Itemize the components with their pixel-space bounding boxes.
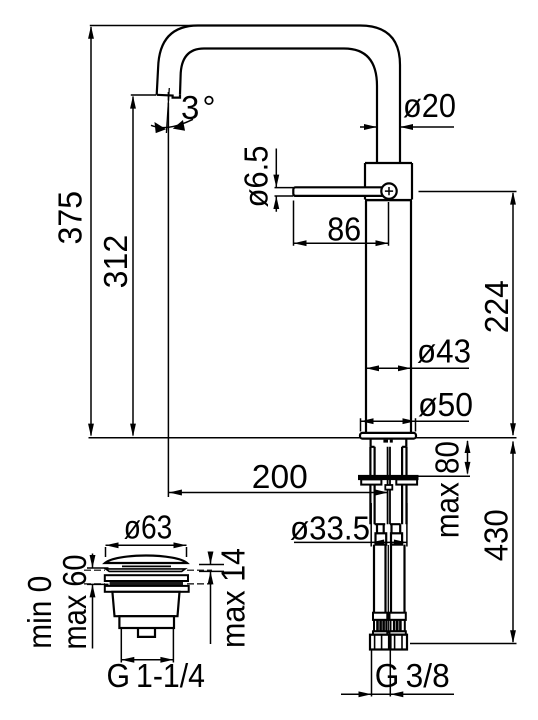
arrow 430 top: [510, 441, 516, 454]
dim 375 line: [90, 27, 92, 436]
dim o33.5 line: [294, 541, 407, 543]
svg-text:200: 200: [252, 458, 308, 495]
arrow 312 top: [130, 96, 136, 109]
dim max14 arrow lines: [210, 552, 212, 645]
body separator thick line: [365, 199, 412, 201]
svg-text:G 1-1/4: G 1-1/4: [106, 657, 205, 694]
spout nozzle bottom and aerator step: [157, 94, 180, 97]
dim o63 line: [106, 544, 187, 546]
dim 312 line: [132, 97, 134, 436]
arrow 430 bottom: [510, 630, 516, 643]
arrow max80 bottom: [465, 462, 471, 475]
arrow o33.5 left: [371, 539, 384, 545]
dim o50 ext lines: [361, 418, 416, 431]
drain bottom tab: [138, 628, 155, 637]
arrow max80 top: [465, 440, 471, 453]
arrow o43 right: [398, 365, 411, 371]
arrow 200 right: [375, 490, 388, 496]
arrow G3/8 left: [359, 691, 372, 697]
dim 86 ext lines: [294, 201, 389, 246]
dim max80 line: [467, 441, 469, 474]
dim max14 ticks: [199, 565, 224, 572]
body block U1 top: [365, 163, 412, 200]
arrow max14 top: [208, 552, 214, 565]
arrow G3/8 right: [390, 691, 403, 697]
arrow o63 left: [106, 542, 119, 548]
rod end block: [385, 485, 392, 490]
spout top extension line: [90, 25, 196, 27]
under-counter shank: [371, 439, 407, 447]
arrow o6.5 bottom: [273, 196, 279, 209]
arrow max14 bottom: [208, 571, 214, 584]
handle pivot circle: [381, 183, 396, 198]
spout tilted axis 3deg: [166, 88, 169, 133]
arrow 224 top: [510, 192, 516, 205]
dim G3/8 ext lines: [372, 651, 391, 697]
arrow 312 bottom: [130, 424, 136, 437]
dome under line: [122, 565, 171, 567]
pipe step-in stubs: [375, 524, 401, 533]
dim o43 line: [366, 367, 469, 369]
arrow G1-1/4 left: [121, 657, 134, 663]
drain body: [112, 592, 179, 616]
mounting washer plate: [359, 476, 418, 485]
spout outer outline: [157, 26, 400, 164]
svg-text:86: 86: [327, 211, 361, 248]
dim max80 bottom ext: [417, 475, 470, 477]
dashed centerline upper: [84, 569, 212, 571]
arrow o20 right: [400, 124, 413, 130]
arrow 86 right: [376, 240, 389, 246]
3 degree arc: [151, 119, 193, 127]
dim 86 line: [294, 242, 389, 244]
svg-text:ø50: ø50: [418, 386, 473, 423]
dim G1-1/4 ext lines: [121, 629, 173, 663]
hose nuts: [370, 635, 407, 650]
dim o63 ext lines: [106, 547, 187, 557]
arrow o43 left: [366, 365, 379, 371]
arrow o20 left: [364, 124, 377, 130]
spout inner outline: [180, 49, 377, 164]
svg-text:224: 224: [478, 280, 515, 333]
dim 430 bottom ext: [410, 643, 517, 645]
dim min0/max60 arrow lines: [92, 554, 94, 649]
spout outlet extension line: [131, 94, 156, 96]
svg-text:min 0: min 0: [21, 576, 58, 649]
svg-text:430: 430: [478, 509, 515, 561]
arrow 3deg right: [173, 120, 185, 131]
drain seal dark band: [110, 582, 183, 586]
dim 200 line: [169, 492, 388, 494]
dim o20 lines: [360, 126, 454, 128]
svg-text:375: 375: [52, 191, 89, 245]
dim G3/8 line: [341, 693, 454, 695]
drain rod dark top marks: [383, 440, 388, 443]
svg-text:ø33.5: ø33.5: [290, 510, 370, 547]
spout axis extension line: [167, 92, 169, 497]
dim min0/max60 ticks: [87, 568, 109, 584]
dim o6.5 arrow lines: [275, 149, 277, 212]
body column: [366, 201, 411, 433]
arrow 224 bottom: [510, 423, 516, 436]
svg-text:ø6.5: ø6.5: [237, 146, 274, 208]
svg-text:3°: 3°: [181, 89, 219, 126]
dim 224 top extension line: [419, 191, 517, 193]
collar ribs: [378, 620, 401, 631]
svg-text:max 80: max 80: [428, 441, 465, 538]
svg-text:ø43: ø43: [417, 333, 471, 370]
arrow 375 bottom: [88, 424, 94, 437]
arrow 200 left: [169, 490, 182, 496]
drain dome cap: [105, 555, 187, 563]
base flange: [360, 433, 416, 439]
arrow min0max60 bottom: [90, 584, 96, 597]
arrow 375 top: [88, 26, 94, 39]
dashed centerline lower: [84, 583, 212, 585]
hose connector blocks: [376, 533, 403, 544]
drain ring band 1: [105, 575, 188, 581]
svg-text:max 14: max 14: [214, 548, 251, 648]
drain pull rod: [388, 447, 390, 524]
drain lower section: [119, 616, 174, 628]
svg-text:ø20: ø20: [403, 87, 456, 124]
dim G1-1/4 line: [121, 659, 173, 661]
arrow 3deg left: [154, 122, 166, 133]
drain washer trapezoid: [106, 569, 186, 572]
svg-text:G 3/8: G 3/8: [375, 657, 450, 694]
arrow 86 left: [294, 240, 307, 246]
arrow o6.5 top: [273, 175, 279, 188]
arrow G1-1/4 right: [160, 657, 173, 663]
arrow o63 right: [174, 542, 187, 548]
supply pipes upper section: [370, 447, 406, 524]
svg-text:312: 312: [97, 235, 134, 289]
dim o33.5 ext lines: [371, 503, 407, 547]
handle lever bar: [293, 187, 384, 196]
dim 224 line: [512, 193, 514, 435]
dim 430 line: [512, 442, 514, 643]
hose collars: [373, 613, 406, 635]
arrow o33.5 right: [394, 539, 407, 545]
svg-text:ø63: ø63: [124, 509, 173, 546]
flexible hoses: [374, 545, 405, 633]
arrow o50 left: [361, 418, 374, 424]
arrow o50 right: [403, 418, 416, 424]
dim o50 line: [361, 420, 470, 422]
drain ring band 2: [105, 586, 189, 592]
counter baseline right: [416, 437, 517, 439]
dim o6.5 ext ticks: [275, 188, 294, 196]
svg-text:max 60: max 60: [56, 555, 93, 650]
counter baseline left: [89, 437, 361, 439]
arrow min0max60 top: [90, 555, 96, 568]
